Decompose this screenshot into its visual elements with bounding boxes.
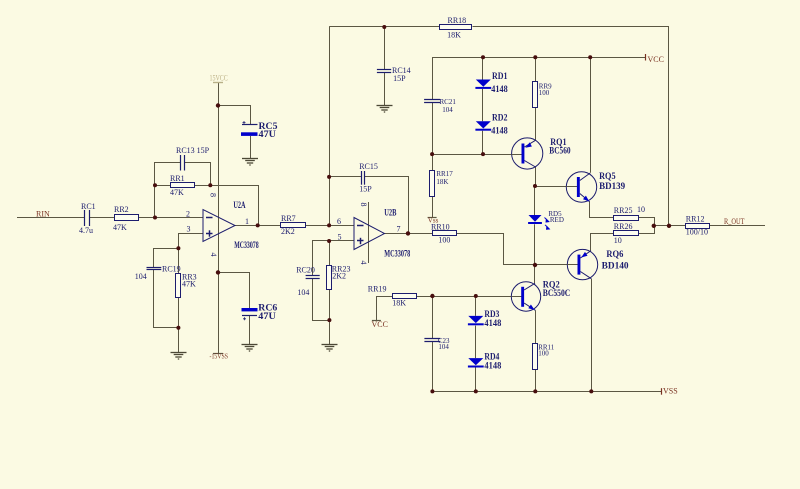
junction RC19/RR3 bottom [176, 326, 180, 330]
wire RQ5 emitter to RR25 [590, 202, 614, 218]
svg-text:U2A: U2A [233, 200, 246, 210]
junction RR25/RR26 output [652, 224, 656, 228]
diode RD3 [468, 316, 484, 325]
svg-text:RR12: RR12 [686, 214, 705, 223]
wire RR26 right bracket [639, 226, 655, 234]
svg-text:U2B: U2B [384, 207, 396, 217]
wire RR7 to U2B pin6 [306, 225, 354, 227]
wire VCC rail [432, 57, 646, 59]
junction U2B output [406, 231, 410, 235]
junction VCC rail / RQ5 collector [588, 55, 592, 59]
wire RR1 right to output [195, 186, 259, 226]
svg-text:R_OUT: R_OUT [724, 217, 745, 226]
svg-text:4148: 4148 [484, 318, 501, 328]
wire RR1 row left [155, 185, 170, 187]
capacitor C23 [424, 339, 440, 342]
diode RD2 [475, 121, 491, 130]
wire C23 top [432, 296, 434, 338]
svg-text:RQ5: RQ5 [599, 171, 616, 181]
wire RQ6 emitter to RR26 [591, 234, 614, 251]
resistor RR3 [176, 274, 181, 298]
wire RC1 to RR2 [90, 217, 115, 219]
capacitor RC14 [377, 70, 391, 73]
resistor RR9 [533, 82, 538, 108]
wire feedback up from pin6 [329, 27, 331, 225]
svg-text:47K: 47K [170, 188, 184, 197]
junction RQ5 base tap [533, 184, 537, 188]
ground at RR23 [322, 345, 338, 352]
wire RR3 node to ground [178, 328, 180, 353]
power port VCC right [645, 54, 647, 61]
ground at RC5 [242, 159, 258, 166]
svg-text:RED: RED [550, 216, 564, 224]
wire RQ2 emitter to RR11 [535, 310, 537, 343]
junction RR19 / C23 [430, 294, 434, 298]
svg-text:RC21: RC21 [440, 98, 457, 106]
svg-text:7: 7 [397, 225, 401, 234]
wire RD4 to VSS rail [475, 368, 477, 392]
svg-text:RIN: RIN [36, 209, 50, 218]
svg-text:4: 4 [209, 253, 218, 257]
junction RC20/RR23 bottom [327, 318, 331, 322]
svg-text:47K: 47K [182, 279, 196, 288]
svg-text:18K: 18K [392, 299, 406, 308]
wire RC15 branch right [365, 177, 409, 234]
wire RC6 to ground [249, 315, 251, 344]
resistor RR19 [393, 294, 417, 299]
junction U2B pin5 [327, 239, 331, 243]
junction RC15 tap [327, 175, 331, 179]
svg-text:104: 104 [135, 272, 147, 281]
svg-text:RC13 15P: RC13 15P [176, 146, 210, 155]
wire RC13 right to RR1 node [185, 163, 211, 186]
svg-text:RR2: RR2 [114, 205, 129, 214]
wire RR23 bottom [329, 289, 331, 320]
svg-text:2: 2 [186, 210, 190, 219]
wire U2B output [385, 233, 433, 235]
wire RC20 bottom [313, 279, 330, 321]
junction U2B pin6 [327, 223, 331, 227]
svg-text:3: 3 [187, 225, 191, 234]
svg-text:6: 6 [337, 217, 341, 226]
wire RQ1 collector down [535, 167, 537, 186]
diode RD1 [475, 80, 491, 89]
svg-text:100: 100 [539, 89, 550, 97]
svg-text:2K2: 2K2 [281, 227, 295, 236]
svg-text:8: 8 [209, 193, 218, 197]
wire U2B pin5 [313, 241, 355, 276]
svg-text:MC33078: MC33078 [384, 248, 410, 258]
svg-text:VCC: VCC [372, 320, 388, 329]
transistor RQ6 BD140 [567, 249, 597, 279]
resistor RR1 [171, 183, 195, 188]
wire RD3 to RD4 [475, 326, 477, 359]
junction drive node [533, 263, 537, 267]
svg-text:15VCC: 15VCC [210, 74, 228, 83]
capacitor RC13 [181, 155, 185, 171]
capacitor RC19 [147, 268, 162, 270]
svg-text:1: 1 [245, 217, 249, 226]
wire RIN input [17, 217, 85, 219]
svg-text:BD140: BD140 [602, 260, 630, 270]
svg-text:15P: 15P [359, 185, 372, 194]
capacitor RC1 [85, 210, 90, 226]
svg-text:100: 100 [438, 236, 450, 245]
svg-text:8: 8 [359, 203, 368, 207]
power port VCC at RR19 [372, 320, 381, 322]
wire top rail right [473, 27, 669, 226]
svg-text:10: 10 [614, 236, 622, 245]
junction RR1 left [153, 183, 157, 187]
wire RC21 top [432, 57, 434, 100]
wire out node to RR12 [655, 225, 686, 227]
capacitor RC6 polarized [242, 308, 258, 320]
wire RC5 branch [219, 106, 251, 125]
svg-text:BC560: BC560 [549, 146, 571, 156]
wire U2B power stub [368, 202, 370, 263]
wire RQ5 base [535, 186, 577, 188]
ground at RR3 [171, 353, 187, 360]
junction VSS rail / RQ6 collector [589, 389, 593, 393]
ground at RC6 [242, 345, 258, 352]
svg-text:5: 5 [338, 233, 342, 242]
wire RD3 top [475, 296, 477, 316]
wire top rail left [329, 26, 440, 28]
wire U2A output [235, 225, 281, 227]
svg-text:MC33078: MC33078 [234, 240, 259, 250]
transistor RQ1 BC560 [512, 138, 543, 169]
svg-text:VSS: VSS [663, 387, 678, 396]
op-amp U2A [203, 210, 235, 242]
wire RR12 to R_OUT [710, 225, 765, 227]
wire RQ2 base line [432, 296, 521, 298]
junction RD3 / RQ2 base line [474, 294, 478, 298]
wire RD5 top [534, 186, 536, 215]
resistor RR12 [686, 224, 710, 229]
svg-text:4148: 4148 [484, 360, 501, 370]
resistor RR26 [614, 231, 639, 236]
svg-text:4148: 4148 [491, 126, 508, 136]
wire RC14 to ground [384, 72, 386, 105]
resistor RR25 [614, 216, 639, 221]
wire RR3 bottom [178, 297, 180, 327]
svg-text:RQ6: RQ6 [606, 249, 623, 259]
wire RC19 branch bottom [154, 270, 179, 328]
svg-text:RR1: RR1 [170, 174, 185, 183]
junction 15VCC rail / RC5 [216, 103, 220, 107]
wire RC15 branch left [329, 176, 362, 178]
junction RD2 / RQ1 base line [481, 152, 485, 156]
svg-text:BC550C: BC550C [543, 288, 571, 298]
resistor RR7 [281, 223, 306, 228]
svg-text:Vss: Vss [428, 217, 439, 225]
wire RQ2 collector [534, 265, 536, 283]
junction VCC rail / RR9 [533, 55, 537, 59]
svg-text:BD139: BD139 [599, 181, 625, 191]
wire RR25 right bracket [639, 218, 655, 226]
power port VSS at RR17 [428, 217, 437, 219]
power port -15VSS [213, 353, 223, 355]
junction feedback tap at output [667, 224, 671, 228]
resistor RR11 [533, 344, 538, 370]
svg-text:18K: 18K [436, 178, 448, 186]
svg-text:RC19: RC19 [162, 265, 181, 274]
capacitor RC15 [362, 171, 365, 185]
wire RC21 bottom [432, 103, 434, 154]
svg-text:4148: 4148 [491, 84, 508, 94]
wire RC6 branch [219, 273, 250, 309]
svg-text:RC1: RC1 [81, 202, 96, 211]
svg-text:VCC: VCC [648, 55, 664, 64]
svg-text:10: 10 [637, 205, 645, 214]
resistor RR18 [440, 25, 472, 30]
junction RC21/RR17 [430, 152, 434, 156]
svg-text:RR7: RR7 [281, 214, 296, 223]
svg-text:104: 104 [297, 288, 309, 297]
svg-text:RC15: RC15 [359, 162, 378, 171]
svg-text:-15VSS: -15VSS [210, 353, 229, 361]
wire U2A power vertical [218, 106, 220, 354]
svg-text:RR17: RR17 [436, 170, 453, 178]
wire node to ground [329, 320, 331, 344]
svg-text:100: 100 [538, 350, 549, 358]
svg-text:104: 104 [438, 343, 449, 351]
svg-text:104: 104 [442, 106, 453, 114]
wire RC19 branch top [154, 249, 179, 268]
wire RR9 top [535, 57, 537, 81]
svg-text:4.7u: 4.7u [79, 226, 93, 235]
wire U2A pin3 [179, 234, 203, 249]
junction RR1 right [208, 183, 212, 187]
wire RR9 to RQ1 emitter [535, 107, 537, 140]
junction VSS line / RC6 [216, 270, 220, 274]
svg-text:RR19: RR19 [368, 285, 387, 294]
svg-text:2K2: 2K2 [332, 272, 346, 281]
wire RQ6 collector to VSS rail [591, 279, 593, 392]
wire C23 bottom [432, 341, 434, 391]
svg-text:4: 4 [359, 261, 368, 265]
wire RC14 top [384, 27, 386, 69]
op-amp U2B [354, 218, 385, 250]
ground at RC14 [377, 106, 393, 113]
resistor RR17 [430, 171, 435, 197]
svg-text:RR26: RR26 [614, 222, 633, 231]
junction RC13/RR1 tap at input [153, 216, 157, 220]
svg-text:RD2: RD2 [492, 112, 508, 122]
wire RR19 left to VCC port [377, 297, 393, 321]
wire RQ5 collector up [590, 57, 592, 173]
junction RC19/RR3 top [176, 246, 180, 250]
wire RC5 to ground [250, 136, 252, 159]
resistor RR10 [433, 231, 457, 236]
wire RD1 top [482, 57, 484, 79]
wire feedback left vertical [155, 163, 181, 218]
capacitor RC5 polarized [241, 121, 258, 136]
wire RQ1 base line [432, 154, 521, 156]
capacitor RC20 [306, 276, 320, 279]
junction VSS rail / RD4 [474, 389, 478, 393]
wire RR17 to VSS port [432, 197, 434, 218]
svg-text:RC20: RC20 [296, 266, 315, 275]
svg-text:47U: 47U [258, 311, 276, 321]
wire RR19 right [416, 296, 432, 298]
wire RR10 to drive node [457, 234, 535, 265]
capacitor RC21 [424, 100, 440, 103]
resistor RR2 [115, 215, 139, 221]
junction VSS rail / RR11 [533, 389, 537, 393]
svg-text:RR18: RR18 [448, 16, 467, 25]
resistor RR23 [327, 266, 332, 290]
wire RR2 to U2A pin2 [139, 217, 203, 219]
wire RQ6 base [535, 264, 577, 266]
wire RR11 to VSS rail [535, 369, 537, 391]
power port VSS right [661, 388, 663, 395]
svg-text:47U: 47U [259, 129, 277, 139]
wire RD2 to base line [482, 131, 484, 154]
junction VSS rail left [430, 389, 434, 393]
transistor RQ2 BC550C [511, 282, 540, 311]
junction U2A output [256, 223, 260, 227]
svg-text:100/10: 100/10 [686, 228, 708, 237]
wire 15VCC down [218, 83, 220, 106]
LED RD5 [528, 215, 549, 229]
junction RC14 tap [382, 25, 386, 29]
transistor RQ5 BD139 [566, 172, 596, 202]
wire RD1 to RD2 [482, 89, 484, 121]
wire VSS rail [432, 391, 661, 393]
wire RD5 bottom to drive node [534, 224, 536, 265]
svg-text:RD1: RD1 [492, 71, 508, 81]
power port 15VCC [213, 82, 223, 84]
wire RR17 top [432, 154, 434, 170]
wire RR3 top [178, 248, 180, 273]
svg-text:15P: 15P [393, 74, 406, 83]
svg-text:RR25: RR25 [614, 206, 633, 215]
svg-text:18K: 18K [447, 30, 461, 39]
junction VCC rail / RD1 [481, 55, 485, 59]
diode RD4 [468, 358, 484, 367]
svg-text:47K: 47K [113, 223, 127, 232]
wire RR23 top [329, 241, 331, 266]
